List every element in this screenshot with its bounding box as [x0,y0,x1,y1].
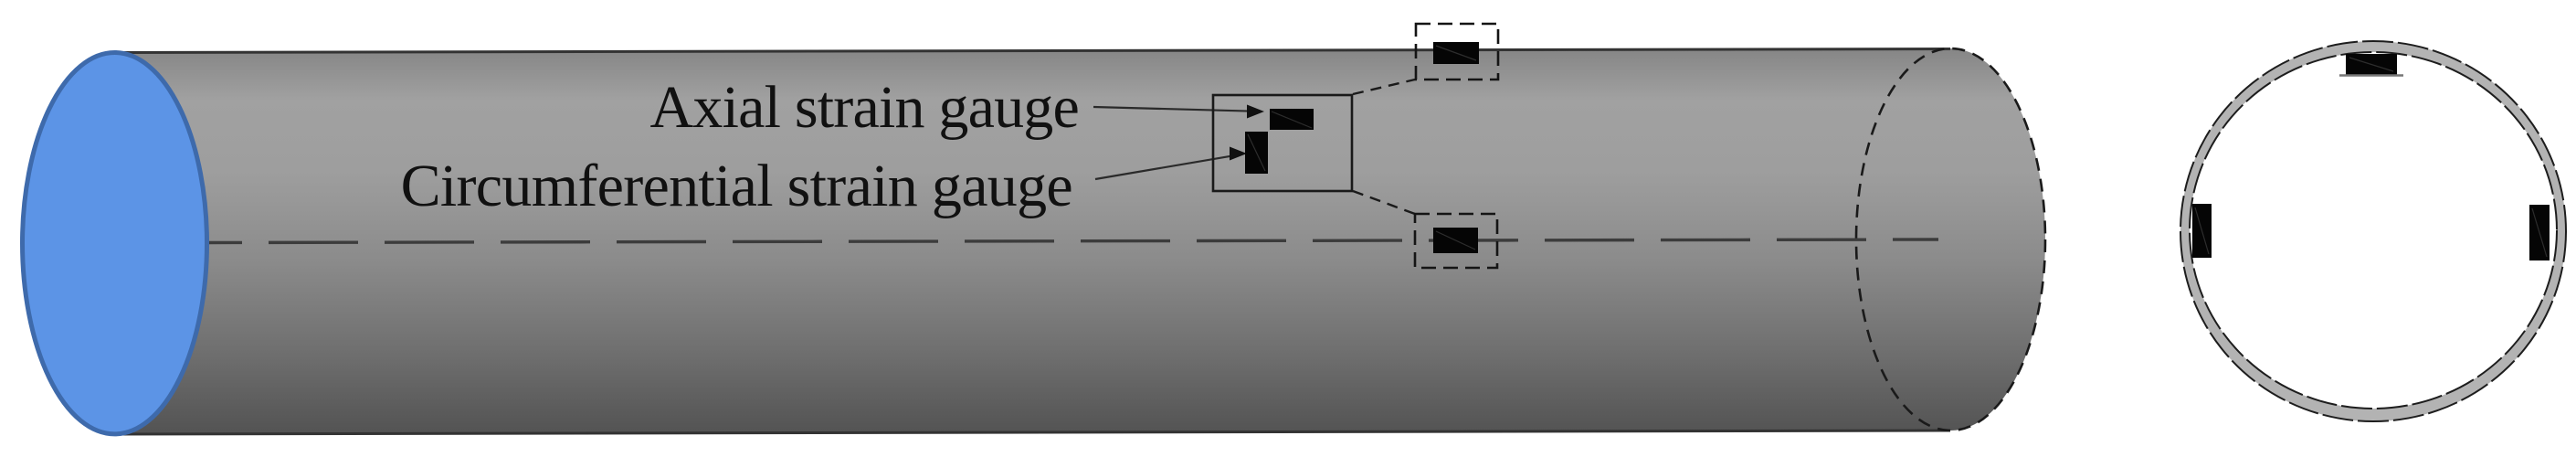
left end cap (blue ellipse) [23,53,207,434]
top gauge base line [2339,74,2403,76]
axial gauge (horizontal black rect) [1270,109,1314,130]
svg-text:Axial strain gauge: Axial strain gauge [650,74,1079,141]
centerline [207,239,1938,243]
bottom gauge black rect [1433,228,1478,253]
cylinder bottom edge [114,430,1950,434]
dashed connector upper [1353,80,1415,94]
leader line 2 (circumferential) [1095,156,1231,179]
cylinder body [114,49,1950,435]
dashed connector lower [1353,191,1415,214]
arrowhead 1 [1247,105,1264,119]
leader line 1 (axial) [1093,107,1253,112]
detail box [1213,95,1352,191]
svg-text:Circumferential strain gauge: Circumferential strain gauge [401,153,1072,219]
circumferential gauge (vertical black rect) [1245,132,1268,174]
cross-section top gauge [2346,54,2397,75]
bottom dashed box [1415,214,1497,268]
top gauge black rect [1433,42,1479,64]
cross-section right gauge [2529,205,2550,260]
cross-section left gauge [2192,204,2212,258]
cylinder right end fill [1856,48,2045,430]
cylinder top edge [114,49,1950,53]
right end dashed ellipse [1856,48,2045,430]
top dashed box [1416,24,1498,80]
arrowhead 2 [1230,147,1247,161]
cross-section outer ring [2180,41,2566,421]
cross-section inner circle [2190,52,2557,409]
